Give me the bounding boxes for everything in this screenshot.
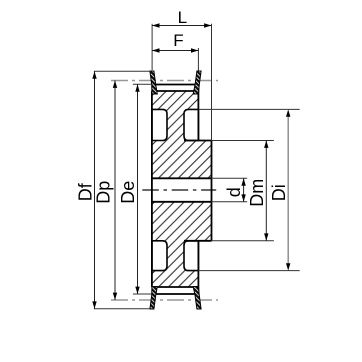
pocket recess top-right (white) <box>184 109 198 140</box>
flange bottom-right <box>193 287 201 309</box>
arrow Dp bottom <box>113 293 117 300</box>
arrow Df top <box>92 71 96 78</box>
arrow d bottom <box>241 194 245 201</box>
dimension De line <box>137 84 139 294</box>
arrow Di top <box>286 109 290 116</box>
pitch line top (dash-dot gray) <box>111 80 218 82</box>
extension line Dm top <box>212 140 274 142</box>
dimension L line <box>152 25 211 27</box>
svg-text:L: L <box>178 8 187 27</box>
flange top-right <box>193 71 201 94</box>
extension line De bottom <box>133 293 152 295</box>
axis centerline (dash-dot) <box>142 189 216 191</box>
svg-text:d: d <box>224 187 244 197</box>
extension line F right <box>197 48 199 71</box>
arrow L right <box>204 23 211 27</box>
flange bottom-left <box>150 287 157 309</box>
extension line Dm bottom <box>212 240 274 242</box>
extension line Df top <box>94 70 151 72</box>
arrow d top <box>241 178 245 185</box>
svg-text:Di: Di <box>269 184 289 201</box>
arrow Dm top <box>264 141 268 148</box>
dimension F line <box>152 50 198 52</box>
bore upper line <box>152 177 212 179</box>
svg-text:F: F <box>173 31 183 50</box>
extension line L right / hub face extended <box>211 24 213 141</box>
hatched web/rim section (lower) <box>152 241 199 287</box>
hub right face <box>211 141 213 241</box>
right face lower (through pocket) <box>197 241 199 293</box>
hub shoulder top <box>184 140 212 142</box>
bore lower line <box>152 201 212 203</box>
svg-text:Dm: Dm <box>247 179 267 207</box>
dimension Dm line <box>265 141 267 241</box>
pocket recess bottom-right (white) <box>184 241 198 271</box>
arrow F right <box>191 48 198 52</box>
pocket recess bottom-left (white) <box>152 241 167 271</box>
arrow Df bottom <box>92 301 96 308</box>
arrow F left <box>152 48 159 52</box>
body outline: left face <box>151 91 153 287</box>
arrow De top <box>135 84 139 91</box>
dimension d line <box>243 178 245 202</box>
rim outer surface bottom (De) <box>155 293 198 295</box>
arrow De bottom <box>135 287 139 294</box>
svg-text:Dp: Dp <box>94 181 114 204</box>
extension line bore top (d) <box>212 177 248 179</box>
extension line bore bottom (d) <box>212 201 248 203</box>
bore band (white) <box>151 178 212 202</box>
rim left small face bottom <box>154 287 156 294</box>
tooth root line bottom <box>152 286 199 288</box>
extension line De top <box>133 83 153 85</box>
hatched hub section (middle, around bore) <box>152 141 212 241</box>
arrow Dm bottom <box>264 233 268 240</box>
dimension Di line <box>287 112 289 268</box>
extension line Di top <box>198 108 299 110</box>
arrow Di bottom <box>286 263 290 270</box>
right face upper (through pocket) <box>197 86 199 141</box>
hub shoulder bottom <box>184 240 212 242</box>
rim left small face top <box>154 85 156 92</box>
flange top-left <box>150 71 157 94</box>
dimension Dp line <box>114 81 116 301</box>
extension line Di bottom <box>198 270 299 272</box>
dimension Df line <box>94 71 96 308</box>
extension line L left <box>151 24 153 70</box>
tooth root line top <box>152 90 199 92</box>
rim outer surface top (De) <box>155 84 198 86</box>
pocket recess top-left (white) <box>152 109 167 140</box>
pitch line bottom (dash-dot gray) <box>111 299 218 301</box>
svg-text:De: De <box>118 181 138 204</box>
extension line Df bottom <box>94 308 150 310</box>
arrow L left <box>152 23 159 27</box>
hatched web/rim section (upper) <box>152 91 199 141</box>
svg-text:Df: Df <box>75 182 95 201</box>
arrow Dp top <box>113 81 117 88</box>
